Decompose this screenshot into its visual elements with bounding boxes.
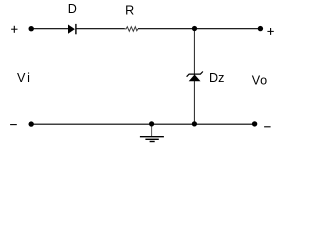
- svg-text:Vi: Vi: [17, 71, 30, 85]
- svg-text:R: R: [125, 4, 134, 18]
- svg-text:D: D: [68, 2, 77, 16]
- svg-text:Vo: Vo: [252, 73, 267, 87]
- svg-text:Dz: Dz: [209, 71, 224, 85]
